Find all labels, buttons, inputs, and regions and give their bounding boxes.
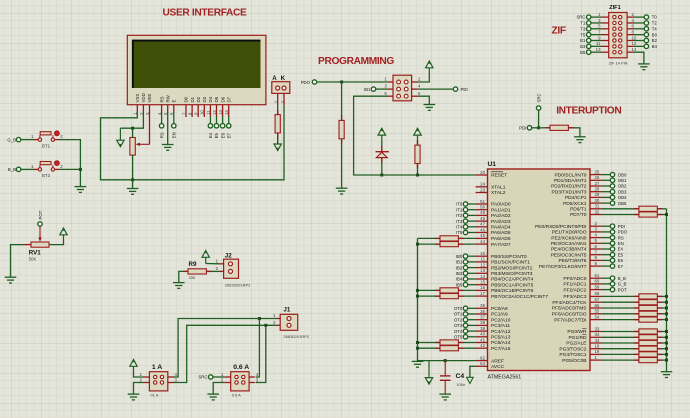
svg-text:PE6/T3/INT6: PE6/T3/INT6 [559, 258, 587, 264]
svg-text:57: 57 [595, 297, 600, 302]
wire branch to fuse 0.6A pin3 [256, 325, 266, 382]
svg-text:PDO: PDO [301, 80, 311, 85]
svg-text:60: 60 [595, 279, 600, 284]
node OT4 terminal [463, 329, 467, 333]
ground AREF bus [412, 361, 424, 367]
svg-text:E: E [172, 100, 177, 103]
svg-text:PC6/A14: PC6/A14 [491, 340, 511, 346]
svg-text:VDD: VDD [141, 93, 146, 102]
push button BT1 [31, 131, 63, 148]
svg-text:PF4/ADC4/TCK: PF4/ADC4/TCK [552, 300, 587, 306]
junction bus row 342.5 [416, 341, 419, 344]
resistor row 354.4 [639, 352, 657, 357]
wire RV1 left to ground [11, 245, 25, 277]
node POT terminal [610, 287, 614, 291]
svg-text:PDI: PDI [461, 87, 468, 92]
svg-text:OT2: OT2 [454, 317, 463, 322]
wire ZIF left row 6 [591, 45, 602, 47]
svg-text:PB7/OC0A/OC1C/PCINT7: PB7/OC0A/OC1C/PCINT7 [491, 294, 548, 300]
wire IT1 to pin [468, 209, 476, 211]
wire BT2 to common [60, 168, 81, 170]
resistor series at row 238.4 [440, 236, 458, 241]
svg-text:13: 13 [480, 268, 485, 273]
resistor series at row 244.1 [440, 242, 458, 247]
wire AVCC down [470, 366, 476, 377]
svg-text:AVCC: AVCC [491, 364, 505, 370]
svg-text:PA2/AD2: PA2/AD2 [491, 213, 511, 219]
wire IT0 to pin [468, 203, 476, 205]
wire A to resistor [277, 105, 279, 115]
wire RW to ground [167, 112, 169, 144]
ZIF socket ZIF1 [609, 5, 628, 66]
junction bus row 296.1 [416, 295, 419, 298]
junction right bus row 348.7 [665, 347, 668, 350]
svg-text:IB1: IB1 [456, 260, 463, 265]
wire RV1 left lead [24, 244, 31, 246]
svg-text:PD0/SCL/INT0: PD0/SCL/INT0 [554, 172, 586, 178]
wire pin to res row 214.5 [602, 214, 639, 216]
junction bus row 290.4 [416, 289, 419, 292]
resistor row 308.0 [639, 305, 657, 310]
wire res to bus row 208.8 [657, 208, 666, 210]
svg-text:PA3/AD3: PA3/AD3 [491, 219, 511, 225]
ground arrow backlight [274, 137, 281, 151]
node T3 terminal [587, 27, 591, 31]
ground under LCD pot [127, 189, 139, 195]
node IB0 terminal [463, 254, 467, 258]
resistor row 214.5 [639, 212, 657, 217]
svg-text:64: 64 [480, 361, 485, 366]
RV1 wiper [39, 226, 41, 239]
svg-text:R9: R9 [189, 261, 197, 268]
wire res to bus row 302.2 [657, 301, 666, 303]
svg-text:44: 44 [480, 239, 485, 244]
ground header [424, 105, 436, 111]
svg-text:12: 12 [480, 262, 485, 267]
wire pin to res row 343.0 [602, 342, 639, 344]
svg-text:19: 19 [595, 349, 600, 354]
svg-text:PDI: PDI [519, 126, 526, 131]
wire pin to res row 360.1 [602, 359, 639, 361]
svg-text:D0: D0 [184, 96, 189, 102]
svg-text:24: 24 [480, 182, 485, 187]
ground arrow VDD net arrow [117, 128, 124, 147]
node IB2 terminal [463, 265, 467, 269]
node IT5 terminal [463, 230, 467, 234]
node EN terminal [610, 241, 614, 245]
svg-text:29: 29 [595, 192, 600, 197]
svg-text:56: 56 [595, 303, 600, 308]
junction right bus row 214.5 [665, 213, 668, 216]
svg-text:J1: J1 [283, 307, 290, 314]
node POT terminal [38, 222, 42, 226]
svg-text:OB0: OB0 [618, 172, 627, 177]
svg-text:PC4/A12: PC4/A12 [491, 329, 511, 335]
svg-text:PF6/ADC6/TDO: PF6/ADC6/TDO [552, 312, 587, 318]
svg-text:PF7/ADC7/TDI: PF7/ADC7/TDI [554, 317, 586, 323]
svg-text:27: 27 [595, 181, 600, 186]
svg-text:40: 40 [480, 332, 485, 337]
wire pin to OB2 [602, 185, 610, 187]
resistor series at row 342.5 [440, 340, 458, 345]
svg-text:OT0: OT0 [454, 306, 463, 311]
wire pin to EN [602, 242, 610, 244]
node B3 terminal [587, 44, 591, 48]
push button BT2 [31, 161, 63, 178]
wire R9 to J2 pin2 [206, 270, 219, 272]
wire res to pin row 244.1 [458, 243, 475, 245]
svg-text:PE3/OC3A/AIN1: PE3/OC3A/AIN1 [551, 241, 587, 247]
U1 left pins [476, 170, 549, 370]
junction pullup junction [416, 174, 419, 177]
svg-text:IT3: IT3 [456, 219, 463, 224]
svg-text:AREF: AREF [491, 358, 504, 364]
svg-text:VEE: VEE [147, 94, 152, 103]
wire IB0 to pin [468, 255, 476, 257]
svg-text:55: 55 [595, 309, 600, 314]
resistor row 331.5 [639, 329, 657, 334]
svg-text:PB0/SS/PCINT0: PB0/SS/PCINT0 [491, 254, 527, 260]
svg-text:ZIF: ZIF [552, 26, 566, 37]
wire IT2 to pin [468, 214, 476, 216]
svg-text:RS: RS [618, 235, 624, 240]
node B_B terminal [16, 167, 20, 171]
junction J1 pin1 branch [258, 317, 261, 320]
svg-text:T4: T4 [652, 26, 658, 31]
resistor pull-down on PDO [339, 120, 344, 138]
svg-text:51: 51 [480, 199, 485, 204]
node T4 terminal [644, 27, 648, 31]
svg-text:D5: D5 [214, 96, 219, 102]
svg-text:E5: E5 [214, 132, 219, 138]
fuse block FU2 0.6A [221, 364, 259, 398]
wire pullup to power [417, 141, 419, 145]
wire LCD E6 [222, 117, 224, 124]
ZIF1 pins [596, 12, 637, 54]
node T0 terminal [644, 15, 648, 19]
svg-text:RV1: RV1 [29, 250, 41, 257]
connector J2 26630201RP2 [216, 253, 252, 288]
wire ZIF left row 2 [591, 22, 602, 24]
wire ZIF right row 4 [634, 34, 645, 36]
wire SRC to fuse 0.6A pin1 [213, 376, 224, 378]
node E4 terminal [610, 247, 614, 251]
junction J1 pin2 branch [264, 324, 267, 327]
svg-text:31: 31 [595, 204, 600, 209]
wire ZIF right row 6 [634, 45, 645, 47]
wire LCD E7 [228, 117, 230, 124]
node T2 terminal [644, 21, 648, 25]
junction right bus row 360.1 [665, 359, 668, 362]
wire diode cathode to power [381, 141, 383, 151]
svg-text:USER INTERFACE: USER INTERFACE [163, 7, 248, 18]
svg-text:OB4: OB4 [618, 195, 627, 200]
junction bus row 348.2 [416, 347, 419, 350]
wire res to bus row 348.7 [657, 348, 666, 350]
svg-text:20: 20 [480, 170, 485, 175]
wire VDD branch [120, 112, 143, 128]
svg-text:ZIF1: ZIF1 [609, 5, 621, 11]
svg-text:PC3/A11: PC3/A11 [491, 323, 510, 329]
node OB2 terminal [610, 184, 614, 188]
svg-text:SRC: SRC [198, 375, 207, 380]
wire pullup to RESET line [417, 164, 419, 176]
svg-text:01 A: 01 A [150, 393, 158, 398]
svg-text:B2: B2 [652, 38, 658, 43]
svg-text:D3: D3 [202, 96, 207, 102]
svg-text:15: 15 [480, 280, 485, 285]
svg-text:PB2/MOSI/PCINT2: PB2/MOSI/PCINT2 [491, 265, 533, 271]
resistor row 302.2 [639, 300, 657, 305]
svg-text:PD5/XCK1: PD5/XCK1 [563, 201, 587, 207]
wire pin to G_B [602, 283, 610, 285]
svg-text:B1: B1 [580, 38, 586, 43]
wire pin to E4 [602, 248, 610, 250]
wire junction to resistor [539, 127, 550, 129]
wire header pin6 to ground [417, 96, 429, 104]
wire pot bottom to ground [132, 180, 134, 188]
node PDO terminal [610, 230, 614, 234]
wire res to pin row 238.4 [458, 237, 475, 239]
node OT5 terminal [463, 335, 467, 339]
svg-text:12: 12 [212, 110, 217, 115]
wire IB1 to header pin3 [376, 88, 388, 90]
node IT0 terminal [463, 202, 467, 206]
wire E pin [173, 112, 175, 124]
resistor row 360.1 [639, 358, 657, 363]
svg-text:PD2/RXD1/INT2: PD2/RXD1/INT2 [551, 184, 587, 190]
svg-text:14: 14 [480, 274, 485, 279]
svg-text:OT5: OT5 [454, 335, 463, 340]
wire branch to R [341, 82, 343, 120]
wire SRC down [538, 110, 540, 128]
svg-text:BT1: BT1 [42, 143, 51, 148]
svg-text:46: 46 [480, 227, 485, 232]
svg-text:B0: B0 [652, 32, 658, 37]
wire fuse 1A pin1 to power [134, 372, 144, 377]
wire res to bus row 360.1 [657, 359, 666, 361]
node OB1 terminal [610, 178, 614, 182]
wire RV1 right to power [49, 241, 64, 245]
wire ZIF right row 5 [634, 40, 645, 42]
svg-text:EN: EN [172, 132, 177, 138]
resistor row 337.3 [639, 335, 657, 340]
svg-text:23: 23 [480, 187, 485, 192]
resistor backlight series [275, 115, 280, 133]
wire OT2 to pin [468, 319, 476, 321]
MCU U1 ATMEGA2561 [488, 161, 591, 380]
svg-text:PDO: PDO [618, 230, 628, 235]
ground interuption [574, 137, 586, 143]
node PDI terminal [610, 224, 614, 228]
power terminal header [426, 61, 433, 74]
svg-text:T0: T0 [652, 15, 658, 20]
node E7 terminal [227, 124, 231, 128]
wire IB4 to pin [468, 278, 476, 280]
node E6 terminal [610, 258, 614, 262]
svg-text:47: 47 [480, 222, 485, 227]
wire fuse 1A pin2 to ground [134, 383, 144, 394]
svg-text:PF2/ADC2: PF2/ADC2 [563, 287, 586, 293]
wire ZIF left row 3 [591, 28, 602, 30]
wire ZIF right row 2 [634, 22, 645, 24]
wire res to bus row 214.5 [657, 214, 666, 216]
svg-text:OB2: OB2 [618, 184, 627, 189]
svg-text:62: 62 [480, 355, 485, 360]
node IB4 terminal [463, 277, 467, 281]
svg-text:IT4: IT4 [456, 225, 463, 230]
resistor R9 [188, 269, 206, 274]
junction BT2 junction [79, 168, 82, 171]
svg-text:17: 17 [480, 291, 485, 296]
node PDI int terminal [527, 126, 531, 130]
node OT0 terminal [463, 306, 467, 310]
svg-text:G_B: G_B [618, 282, 627, 287]
node OB4 terminal [610, 195, 614, 199]
svg-text:K: K [281, 75, 286, 82]
wire IB5 to pin [468, 284, 476, 286]
svg-text:PE1/TXD0/PDO: PE1/TXD0/PDO [552, 230, 587, 236]
svg-text:14: 14 [632, 47, 637, 52]
svg-text:PD6/T1: PD6/T1 [570, 207, 587, 213]
svg-text:D4: D4 [208, 96, 213, 102]
ground fuse 1A [128, 394, 140, 400]
svg-text:1: 1 [274, 101, 278, 103]
wire buttons common [60, 140, 81, 187]
wire LCD E4 [209, 117, 211, 124]
wire OT0 to pin [468, 307, 476, 309]
wire ZIF right row 1 [634, 16, 645, 18]
potentiometer RV1 50K [38, 210, 43, 219]
diode D1 [376, 152, 389, 158]
ground RW [162, 145, 174, 151]
node G_B terminal [16, 137, 20, 141]
node B1 terminal [587, 38, 591, 42]
wire pin to res row 319.6 [602, 319, 639, 321]
svg-text:SRC: SRC [576, 15, 585, 20]
svg-text:B3: B3 [580, 44, 586, 49]
svg-text:VSS: VSS [135, 94, 140, 103]
svg-text:49: 49 [480, 210, 485, 215]
svg-text:C4: C4 [456, 373, 465, 380]
ground right bus [661, 372, 673, 378]
svg-text:13: 13 [596, 47, 601, 52]
svg-text:34: 34 [595, 332, 600, 337]
wire header pin4 to PDI [417, 88, 453, 90]
node B4 terminal [644, 44, 648, 48]
node SRC int terminal [536, 106, 540, 110]
svg-text:PE2/XCK0/AIN0: PE2/XCK0/AIN0 [551, 235, 587, 241]
node PDI (header) terminal [453, 87, 457, 91]
svg-text:B4: B4 [652, 44, 658, 49]
svg-text:PA1/AD1: PA1/AD1 [491, 207, 511, 213]
svg-text:PDI: PDI [618, 224, 625, 229]
wire pin to OB4 [602, 196, 610, 198]
svg-text:37: 37 [480, 315, 485, 320]
svg-text:11: 11 [596, 41, 601, 46]
svg-text:PF5/ADC5/TMS: PF5/ADC5/TMS [552, 306, 587, 312]
svg-text:PG4/TOSC1: PG4/TOSC1 [559, 352, 586, 358]
svg-text:30: 30 [595, 198, 600, 203]
junction right bus row 331.5 [665, 330, 668, 333]
svg-text:58: 58 [595, 291, 600, 296]
wire branch to fuse 0.6A pin4 [256, 319, 260, 378]
wire ZIF left row 1 [591, 16, 602, 18]
ground ZIF [638, 64, 650, 70]
svg-text:43: 43 [595, 338, 600, 343]
pot wiper from VEE [137, 143, 149, 145]
wire right ground bus [666, 209, 668, 372]
svg-text:D7: D7 [226, 96, 231, 102]
svg-text:IT2: IT2 [456, 213, 463, 218]
contrast preset pot [130, 138, 135, 156]
svg-text:42: 42 [480, 343, 485, 348]
svg-text:PB6/OC1B/PCINT6: PB6/OC1B/PCINT6 [491, 288, 534, 294]
wire J1 pin2 to fuse 1A pin3 [173, 325, 276, 382]
wire pin to PDO [602, 231, 610, 233]
svg-text:PA0/AD0: PA0/AD0 [491, 202, 511, 208]
svg-text:D2: D2 [196, 96, 201, 102]
svg-text:U1: U1 [488, 161, 497, 168]
svg-text:PA5/AD5: PA5/AD5 [491, 230, 511, 236]
wire res to bus row 354.4 [657, 353, 666, 355]
junction VDD / pot top [131, 127, 134, 130]
node OB3 terminal [610, 190, 614, 194]
svg-text:SRC: SRC [536, 93, 541, 102]
wire res to bus row 331.5 [657, 331, 666, 333]
svg-text:33: 33 [595, 326, 600, 331]
svg-text:G_B: G_B [7, 137, 16, 142]
svg-text:B_B: B_B [8, 167, 16, 172]
node B0 terminal [644, 32, 648, 36]
svg-text:POT: POT [618, 287, 627, 292]
svg-text:25: 25 [595, 169, 600, 174]
svg-text:E5: E5 [618, 252, 624, 257]
ground PDO pull-down [336, 188, 348, 194]
node IT4 terminal [463, 225, 467, 229]
node G_B terminal [610, 282, 614, 286]
wire IT4 to pin [468, 226, 476, 228]
svg-text:26630201RP2: 26630201RP2 [283, 334, 309, 339]
svg-text:ZIF 14 PIN: ZIF 14 PIN [609, 61, 628, 66]
svg-text:PB1/SCK/PCINT1: PB1/SCK/PCINT1 [491, 260, 530, 266]
svg-text:PG2/ALE: PG2/ALE [566, 341, 587, 347]
wire PDI to junction [532, 127, 539, 129]
wire OT5 to pin [468, 336, 476, 338]
LCD display module LM016L [127, 35, 266, 117]
svg-text:10: 10 [480, 251, 485, 256]
svg-text:PE5/OC3C/INT5: PE5/OC3C/INT5 [551, 252, 587, 258]
wire diode anode to RESET line [381, 158, 383, 175]
svg-text:OB3: OB3 [618, 189, 627, 194]
wire pin to res row 337.3 [602, 336, 639, 338]
node SRC (fuse) terminal [209, 375, 213, 379]
wire pin to res row 348.7 [602, 348, 639, 350]
resistor row 348.7 [639, 346, 657, 351]
svg-text:330: 330 [189, 275, 196, 280]
svg-text:100n: 100n [456, 382, 465, 387]
node EN terminal [172, 124, 176, 128]
resistor series at row 290.4 [440, 288, 458, 293]
wire pin to B_B [602, 277, 610, 279]
wire R to ground [341, 139, 343, 188]
junction right bus row 302.2 [665, 301, 668, 304]
wire ZIF left row 7 [591, 51, 602, 53]
svg-text:35: 35 [480, 303, 485, 308]
svg-text:PC0/A8: PC0/A8 [491, 306, 508, 312]
node T1 terminal [587, 21, 591, 25]
svg-text:IB2: IB2 [456, 265, 463, 270]
